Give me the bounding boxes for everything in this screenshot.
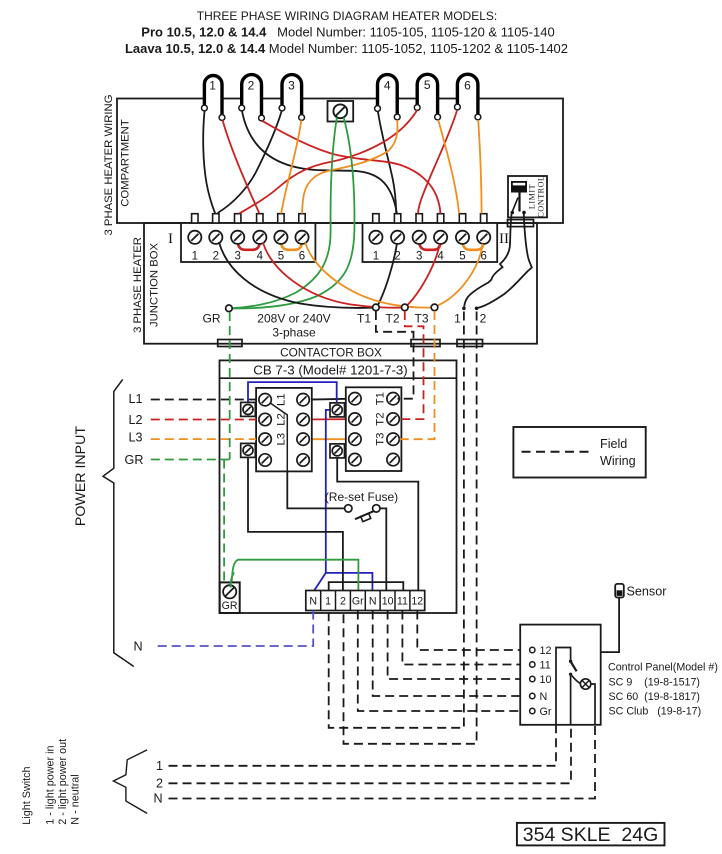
wire black L-tab-bottom to cell 2 xyxy=(248,452,343,591)
heater element 5 xyxy=(414,74,440,120)
wire black L1 contact through L-block to fuse xyxy=(267,401,345,509)
svg-text:4: 4 xyxy=(384,79,391,93)
dashed red power L2 xyxy=(151,419,256,421)
svg-text:Laava 10.5, 12.0 & 14.4 Model: Laava 10.5, 12.0 & 14.4 Model Number: 11… xyxy=(125,41,568,56)
control panel terminal 10 xyxy=(530,676,535,681)
svg-text:N: N xyxy=(369,596,377,608)
dashed green GR row down to GR terminal box xyxy=(223,460,225,583)
dashed orange power L3 xyxy=(151,438,256,440)
wire green GR screw to cell Gr xyxy=(232,560,359,591)
dashed black light row 2 xyxy=(169,725,572,784)
heater element 3 xyxy=(279,75,304,121)
node 2 xyxy=(475,307,479,311)
svg-text:N: N xyxy=(153,792,162,806)
control panel box xyxy=(520,625,601,725)
wire black strip I screw2 to node T1 xyxy=(219,242,372,308)
svg-text:208V or 240V: 208V or 240V xyxy=(257,312,330,326)
strip II jumper orange 5-6 xyxy=(463,242,484,250)
svg-text:COMPARTMENT: COMPARTMENT xyxy=(119,119,131,207)
svg-text:CONTROL: CONTROL xyxy=(537,176,546,218)
svg-text:L3: L3 xyxy=(128,431,142,445)
strip II jumper red 3-4 xyxy=(419,242,440,250)
L-block side tab bottom xyxy=(241,443,256,457)
wire green ground-screw left to GR node xyxy=(232,118,337,309)
strip I jumper orange 5-6 xyxy=(281,242,302,250)
control panel internal wire to light row 1 xyxy=(556,648,571,725)
sensor icon xyxy=(615,584,624,598)
svg-text:1: 1 xyxy=(192,251,198,263)
GR terminal box xyxy=(220,573,240,614)
svg-text:10: 10 xyxy=(540,674,552,686)
wire red E2-right to strip II tab4 xyxy=(262,121,441,214)
dashed black light row N xyxy=(169,725,596,799)
svg-text:2: 2 xyxy=(213,251,219,263)
strip I numbers xyxy=(192,251,306,263)
control panel terminal N xyxy=(530,693,535,698)
svg-text:L2: L2 xyxy=(276,413,288,426)
svg-text:T1: T1 xyxy=(357,312,371,326)
svg-text:JUNCTION BOX: JUNCTION BOX xyxy=(148,242,160,327)
svg-text:I: I xyxy=(168,231,173,247)
svg-text:3 PHASE HEATER WIRING: 3 PHASE HEATER WIRING xyxy=(103,94,115,235)
ground screw in compartment xyxy=(328,101,354,122)
svg-text:T3: T3 xyxy=(414,312,428,326)
wire orange E3-right to strip I tab5 xyxy=(281,120,301,213)
wire orange E6-right to strip II tab6 xyxy=(478,120,481,214)
svg-text:11: 11 xyxy=(397,596,408,608)
svg-text:(Re-set Fuse): (Re-set Fuse) xyxy=(325,490,398,504)
dashed green power GR xyxy=(151,459,230,461)
field wiring legend box xyxy=(513,427,645,478)
strip II numbers xyxy=(373,251,487,263)
sensor wire xyxy=(601,597,619,652)
strip I top tabs xyxy=(192,214,306,223)
svg-text:THREE PHASE WIRING DIAGRAM HEA: THREE PHASE WIRING DIAGRAM HEATER MODELS… xyxy=(197,9,497,23)
contactor L-block xyxy=(256,388,312,472)
svg-text:Light Switch: Light Switch xyxy=(21,766,33,824)
svg-text:Gr: Gr xyxy=(540,706,552,718)
dashed black T1 node to T-block xyxy=(376,311,414,399)
svg-text:6: 6 xyxy=(464,79,471,93)
svg-text:2: 2 xyxy=(340,596,346,608)
node 1 xyxy=(462,307,466,311)
contactor box xyxy=(220,360,457,613)
strip II top tabs xyxy=(373,214,487,223)
svg-text:N - neutral: N - neutral xyxy=(70,774,82,824)
svg-text:T2: T2 xyxy=(375,413,387,426)
dashed black power L1 xyxy=(151,399,256,401)
svg-text:4: 4 xyxy=(257,251,264,263)
svg-text:L2: L2 xyxy=(128,413,142,427)
svg-text:Wiring: Wiring xyxy=(600,454,636,468)
wire orange E4-right to strip I tab6 xyxy=(302,120,397,214)
strip I jumper red 3-4 xyxy=(238,242,260,250)
wire green ground-screw right to GR node xyxy=(232,118,354,309)
dashed red T2 node to T-block xyxy=(398,311,424,419)
terminal strip I body xyxy=(181,223,315,262)
svg-text:5: 5 xyxy=(278,251,284,263)
strip II screws 1-6 xyxy=(369,231,382,244)
cable clamp on compartment bottom (limit control wires) xyxy=(508,220,534,227)
svg-text:SC 60 (19-8-1817): SC 60 (19-8-1817) xyxy=(609,691,701,703)
wire black wavy limit-control to node 2 xyxy=(477,214,532,308)
svg-text:2 - light power out: 2 - light power out xyxy=(57,739,69,825)
3 phase heater junction box xyxy=(144,223,537,344)
wire black strip II screw2 to node T1 xyxy=(378,244,397,304)
svg-text:11: 11 xyxy=(540,659,551,671)
wire red E1-right to strip I tab4 xyxy=(223,120,260,213)
L-block divider diagonal xyxy=(267,401,287,472)
svg-text:CB 7-3 (Model# 1201-7-3): CB 7-3 (Model# 1201-7-3) xyxy=(253,363,407,378)
control panel terminal 11 xyxy=(530,662,535,667)
bottom terminal strip N 1 2 Gr N 10 11 12 xyxy=(306,591,425,611)
L-block side tab top xyxy=(241,402,256,416)
svg-text:1: 1 xyxy=(209,79,216,93)
svg-text:2: 2 xyxy=(248,79,255,93)
wire black bracket cell1 to cell11 xyxy=(329,582,404,590)
dashed black node 1 to strip cell 1 xyxy=(329,312,464,728)
svg-text:N: N xyxy=(540,691,548,703)
wire orange E5-right to strip II tab5 xyxy=(438,120,459,214)
control panel wire lamp to light row N xyxy=(591,684,595,725)
heater element 2 xyxy=(239,75,265,121)
svg-text:Gr: Gr xyxy=(352,596,364,608)
svg-text:1 - light power in: 1 - light power in xyxy=(45,745,57,824)
control panel terminal Gr xyxy=(530,708,535,713)
svg-text:T2: T2 xyxy=(385,312,399,326)
re-set fuse xyxy=(325,490,398,522)
wire blue T-tab down to N cells xyxy=(314,410,372,591)
wire orange strip II screw6 to node T3 xyxy=(438,244,483,306)
wire black E3-left to strip I tab2 xyxy=(218,111,282,213)
svg-text:GR: GR xyxy=(125,453,144,467)
wire black E4-left to strip II tab2 xyxy=(378,111,396,213)
part number box 354 SKLE 24G xyxy=(517,823,665,846)
svg-text:12: 12 xyxy=(540,645,552,657)
svg-text:LIMIT: LIMIT xyxy=(528,184,537,209)
svg-text:1: 1 xyxy=(325,596,331,608)
svg-text:GR: GR xyxy=(222,600,238,612)
cable clamp on junction box bottom (GR) xyxy=(218,340,242,347)
svg-text:GR: GR xyxy=(203,312,221,326)
svg-text:N: N xyxy=(309,596,317,608)
dashed black cell N to control panel N xyxy=(373,611,530,697)
light switch brace xyxy=(113,750,147,814)
wire red E6-left to strip II tab3 xyxy=(418,111,457,214)
svg-text:L1: L1 xyxy=(276,393,288,406)
control panel wire switch to light row 2 xyxy=(570,676,572,725)
dashed black light row 1 xyxy=(169,725,557,766)
heater element 6 xyxy=(455,74,481,120)
wire solid black L-block row1 to T-block row1 xyxy=(303,399,355,400)
wire blue coil jumper L-tab to T-tab xyxy=(248,382,337,407)
svg-text:Pro 10.5, 12.0 & 14.4 Model: Pro 10.5, 12.0 & 14.4 Model Number: 1105… xyxy=(141,25,554,40)
wire black wavy limit-control to node 1 xyxy=(464,214,511,307)
svg-text:Sensor: Sensor xyxy=(627,585,667,599)
svg-text:Field: Field xyxy=(600,437,627,451)
wire black T-tab-bottom to cell 12 xyxy=(337,452,418,591)
control panel lamp xyxy=(572,676,581,684)
wire solid orange L-block row3 to T-block row3 xyxy=(303,438,355,440)
dashed black cell Gr to control panel Gr xyxy=(358,611,530,712)
dashed green GR node down to GR row xyxy=(229,312,231,460)
3 phase heater wiring compartment box xyxy=(117,99,563,224)
dashed black cell 10 to control panel 10 xyxy=(388,611,530,680)
dashed blue neutral cell N to N label xyxy=(153,611,313,647)
terminal strip II body xyxy=(363,223,498,262)
dashed black cell 12 to control panel 12 xyxy=(417,611,529,651)
svg-text:3: 3 xyxy=(416,251,422,263)
wire solid red L-block row2 to T-block row2 xyxy=(303,418,355,420)
node GR xyxy=(226,305,233,312)
cable clamp on junction box bottom (T1 T2 T3) xyxy=(411,340,440,347)
control panel terminal 12 xyxy=(530,647,535,652)
svg-text:3-phase: 3-phase xyxy=(272,326,316,340)
T-block side tab top xyxy=(330,403,345,417)
L-block screws xyxy=(259,394,271,406)
svg-text:5: 5 xyxy=(459,251,465,263)
wire orange strip I screw6 to node T3 xyxy=(305,243,431,308)
svg-text:1: 1 xyxy=(156,759,163,773)
svg-text:3: 3 xyxy=(288,79,295,93)
svg-text:L3: L3 xyxy=(276,433,288,446)
node T3 xyxy=(431,304,438,311)
svg-text:L1: L1 xyxy=(128,392,142,406)
contactor T-block xyxy=(346,387,402,471)
svg-text:5: 5 xyxy=(424,78,431,92)
wire black E1-left to strip I tab2 xyxy=(203,111,215,214)
wire red E5-left to strip I tab3 xyxy=(239,110,417,213)
wire black fuse to cell 10 xyxy=(380,508,386,590)
svg-text:SC 9 (19-8-1517): SC 9 (19-8-1517) xyxy=(609,677,700,689)
wire black E2-left to strip II tab2 xyxy=(242,111,397,214)
svg-text:N: N xyxy=(133,639,142,653)
svg-text:12: 12 xyxy=(411,596,423,608)
strip I screws 1-6 xyxy=(188,231,201,244)
svg-text:T3: T3 xyxy=(375,433,387,446)
svg-text:CONTACTOR BOX: CONTACTOR BOX xyxy=(280,345,382,359)
svg-text:T1: T1 xyxy=(375,392,387,405)
T-block side tab bottom xyxy=(330,444,345,458)
POWER INPUT brace xyxy=(103,379,134,666)
dashed orange T3 node to T-block xyxy=(398,311,435,439)
node T1 xyxy=(373,304,380,311)
svg-text:3: 3 xyxy=(234,251,240,263)
svg-text:1: 1 xyxy=(454,312,461,326)
svg-text:1: 1 xyxy=(373,251,379,263)
limit control box xyxy=(508,176,547,218)
svg-text:2: 2 xyxy=(480,312,487,326)
T-block screws xyxy=(349,393,361,405)
heater element 4 xyxy=(375,75,401,120)
heater element 1 xyxy=(202,76,225,121)
node T2 xyxy=(402,304,409,311)
cable clamp on junction box bottom (1 2) xyxy=(457,340,483,347)
svg-text:Control Panel(Model #): Control Panel(Model #) xyxy=(608,662,718,674)
svg-text:354 SKLE 24G: 354 SKLE 24G xyxy=(523,824,659,846)
svg-text:SC Club (19-8-17): SC Club (19-8-17) xyxy=(609,706,702,718)
wire red strip I screw4 to node T2 xyxy=(263,243,401,308)
svg-text:6: 6 xyxy=(299,251,305,263)
svg-text:10: 10 xyxy=(382,596,394,608)
svg-text:2: 2 xyxy=(156,776,163,790)
dashed black cell 11 to control panel 11 xyxy=(402,611,529,665)
svg-text:II: II xyxy=(499,231,509,247)
wire red strip II screw4 to node T2 xyxy=(408,244,440,305)
dashed black node 2 to strip cell 2 xyxy=(344,312,477,744)
control panel switch xyxy=(569,660,572,663)
svg-text:POWER INPUT: POWER INPUT xyxy=(73,426,89,526)
svg-text:3 PHASE HEATER: 3 PHASE HEATER xyxy=(132,237,144,333)
